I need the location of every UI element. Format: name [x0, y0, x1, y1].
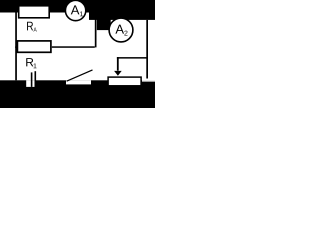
- wire: left vertical: [15, 13, 17, 81]
- rheostat wiper arrowhead: [114, 71, 122, 76]
- rheostat R2 box: [108, 77, 141, 86]
- ammeter A2 circle: [109, 18, 133, 42]
- switch S1 blade: [67, 70, 93, 81]
- resistor RA box: [19, 6, 50, 18]
- wire: wiper vertical stub: [117, 57, 119, 71]
- wire: thick stub from junction to A2 (black block): [97, 12, 111, 30]
- wire: junction vertical to top bus: [95, 13, 97, 48]
- wire: wiper horizontal: [117, 57, 148, 59]
- wire: bottom bus (thick black region): [0, 80, 155, 108]
- node: battery gap cutout: [26, 80, 34, 87]
- background: [0, 0, 155, 108]
- wire: top-right bus segment to A2 branch: [89, 0, 155, 20]
- node: switch gap cutout: [66, 80, 91, 84]
- battery B1 plate short (right): [35, 71, 37, 81]
- ammeter A1 circle: [65, 0, 85, 20]
- resistor R1 box: [17, 41, 51, 52]
- battery B1 plate long (left, thin tall): [31, 72, 33, 87]
- wire: R1 right horizontal: [52, 46, 95, 48]
- wire: top bus (thick black band): [0, 0, 155, 13]
- wire: right vertical: [146, 20, 148, 79]
- wire: R1 left stub: [15, 46, 18, 48]
- node: gap right of rheostat: [142, 80, 155, 81]
